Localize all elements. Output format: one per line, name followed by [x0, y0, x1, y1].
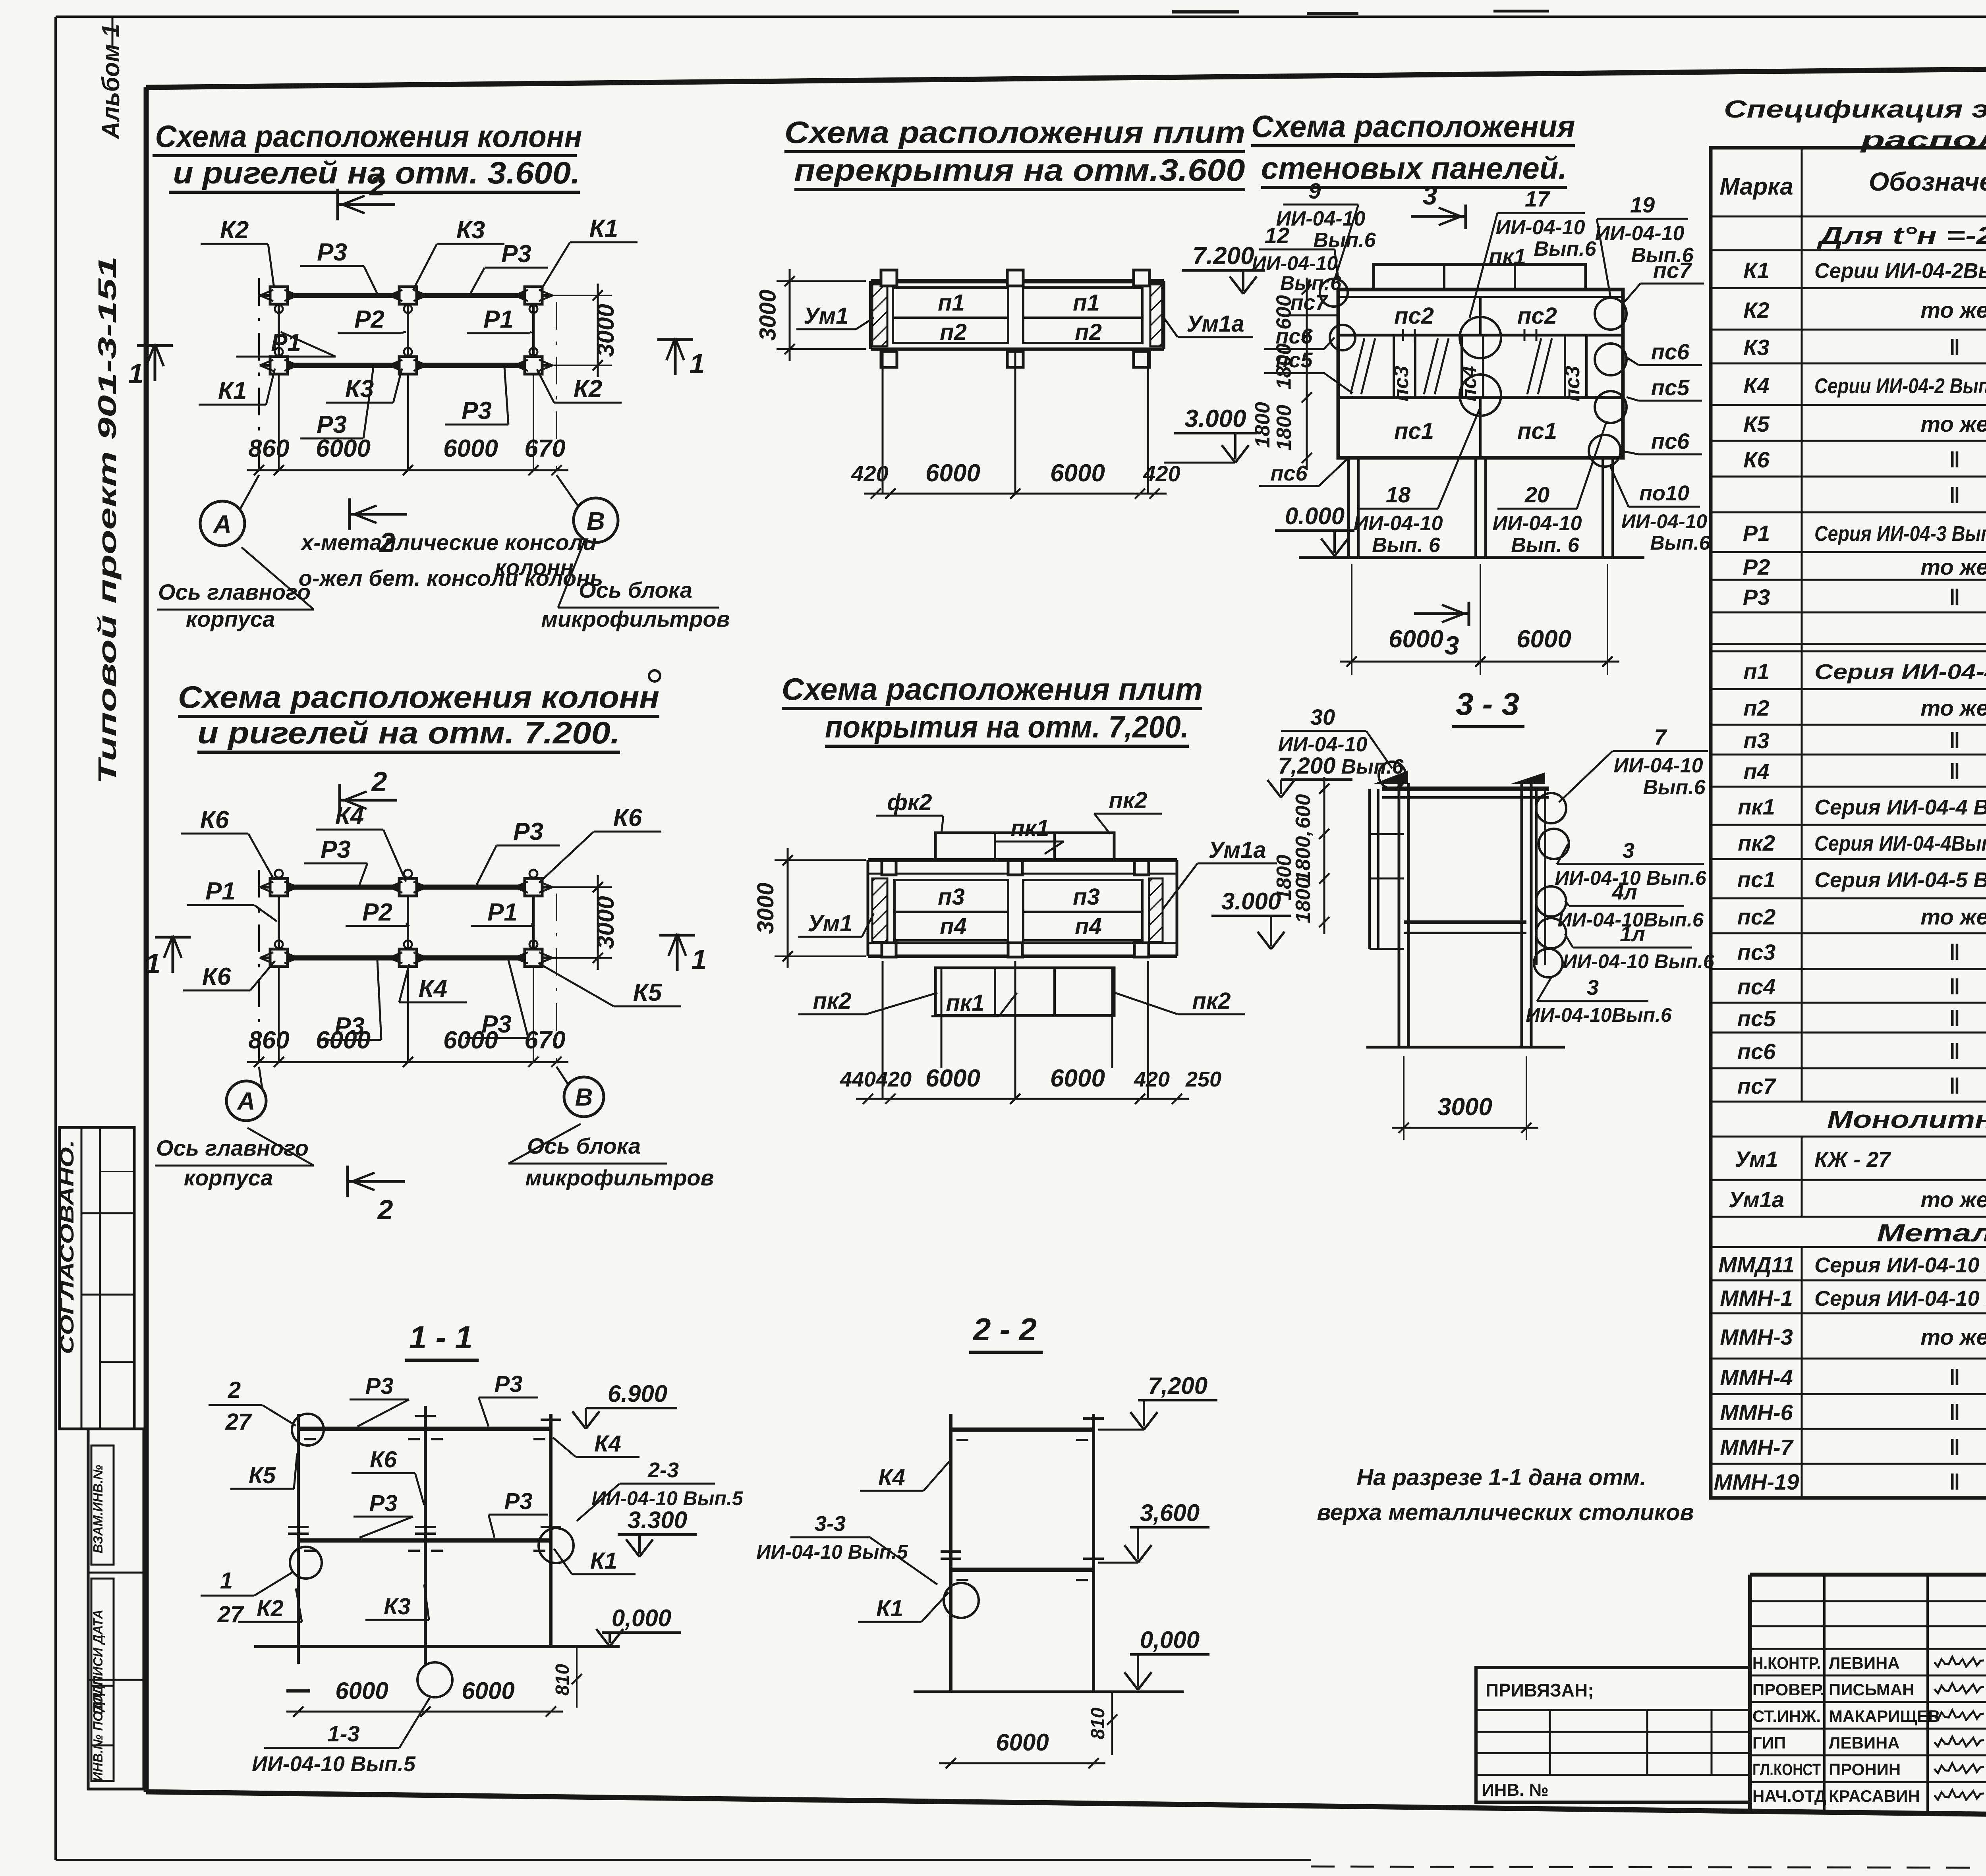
- svg-text:и ригелей на отм. 7.200.: и ригелей на отм. 7.200.: [197, 715, 620, 750]
- svg-text:2-3: 2-3: [647, 1458, 679, 1482]
- svg-text:810: 810: [552, 1664, 573, 1696]
- elevation 0.000 (section 2-2): [1124, 1627, 1209, 1690]
- svg-text:Ось блока: Ось блока: [579, 577, 692, 602]
- svg-text:6000: 6000: [925, 459, 980, 487]
- svg-text:К6: К6: [370, 1447, 397, 1473]
- label Um1a (diagram 4): [1163, 837, 1277, 909]
- svg-text:Р3: Р3: [317, 239, 347, 266]
- label PS6 right (diagram 5): [1627, 339, 1702, 365]
- label K6 bottom (diagram 2): [183, 961, 275, 990]
- vertical dimension 3000 (diagram 1): [541, 284, 619, 377]
- label K6 top right (diagram 2): [539, 804, 661, 882]
- svg-text:3: 3: [1587, 976, 1599, 1000]
- label K4 (diagram 2): [316, 802, 406, 882]
- svg-text:пк2: пк2: [1192, 988, 1231, 1014]
- svg-text:3000: 3000: [1437, 1093, 1492, 1121]
- svg-text:НАЧ.ОТД: НАЧ.ОТД: [1752, 1787, 1826, 1805]
- sidebar agreement box: [57, 1127, 134, 1429]
- label P2 (diagram 1): [338, 306, 406, 333]
- svg-text:Монолитные железобетонные: Монолитные железобетонные элементы.: [1827, 1106, 1986, 1133]
- svg-text:860: 860: [248, 435, 289, 462]
- svg-text:6000: 6000: [925, 1065, 980, 1092]
- svg-text:Р3: Р3: [317, 411, 347, 438]
- mid beam (section 2-2): [951, 1570, 1093, 1580]
- section 3-3 columns: [1399, 783, 1531, 1047]
- label R3 top-right (section 1-1): [479, 1371, 538, 1426]
- svg-text:440: 440: [840, 1067, 876, 1091]
- title: scheme of floor slabs at 3.600: [784, 115, 1245, 189]
- svg-text:27: 27: [225, 1409, 252, 1435]
- svg-text:пс1: пс1: [1394, 418, 1434, 444]
- specification table header: [1719, 157, 1986, 227]
- label K4 bottom (diagram 2): [399, 964, 467, 1002]
- column plates (diagram 3 bottom): [881, 351, 1149, 367]
- corner circles left edge (diagram 5): [1320, 279, 1355, 350]
- section mark 2 (top, diagram 2): [340, 766, 397, 816]
- column K4 (diagram 2 top row): [389, 870, 427, 896]
- svg-text:К2: К2: [1743, 297, 1770, 322]
- column K6 (diagram 2 bottom row): [260, 940, 298, 967]
- label P3 top-left (diagram 1): [300, 239, 377, 294]
- title 2-2: [969, 1312, 1043, 1352]
- svg-text:600: 600: [1292, 794, 1315, 829]
- axis circle B (diagram 1): [556, 475, 618, 542]
- column axes below slab (diagram 3): [883, 351, 1148, 494]
- svg-text:Ось главного: Ось главного: [158, 579, 311, 604]
- svg-text:20: 20: [1524, 482, 1549, 507]
- column feet (section 1-1): [286, 1689, 437, 1693]
- dimension chain 860-6000-6000-670 (diagram 1): [247, 435, 568, 475]
- svg-text:Р3: Р3: [504, 1488, 533, 1514]
- column axes below (diagram 4): [883, 961, 1148, 1099]
- label K5 (diagram 2): [538, 963, 681, 1006]
- svg-text:КЖ - 27: КЖ - 27: [1814, 1148, 1891, 1172]
- svg-text:ММН-3: ММН-3: [1720, 1324, 1793, 1349]
- svg-text:ИНВ.№ ПОДЛ.: ИНВ.№ ПОДЛ.: [91, 1689, 105, 1781]
- svg-text:п1: п1: [1743, 659, 1769, 684]
- svg-text:Вып.6: Вып.6: [1534, 237, 1596, 261]
- axis circle B (diagram 2): [556, 1067, 604, 1117]
- joints on columns (section 1-1): [288, 1416, 561, 1534]
- svg-text:пс7: пс7: [1737, 1073, 1777, 1098]
- svg-text:пк1: пк1: [1010, 815, 1049, 841]
- label P1 right (diagram 2): [471, 899, 534, 926]
- elevation 0.000 (diagram 5): [1275, 503, 1354, 556]
- label P3 top-right (diagram 2): [477, 818, 560, 885]
- monolithic wall section Um1a (diagram 4): [1149, 878, 1163, 942]
- svg-text:х-металлические консоли: х-металлические консоли: [300, 530, 597, 555]
- svg-text:ИИ-04-10: ИИ-04-10: [1492, 512, 1582, 535]
- svg-text:Вып.6: Вып.6: [1650, 532, 1710, 554]
- elevation 0.000 (section 1-1): [596, 1605, 681, 1646]
- svg-text:К5: К5: [633, 979, 663, 1006]
- svg-text:ММН-6: ММН-6: [1720, 1400, 1793, 1425]
- slab outline (diagram 3): [871, 281, 1164, 349]
- svg-text:Альбом 1: Альбом 1: [97, 24, 125, 140]
- svg-text:‖: ‖: [1949, 759, 1960, 784]
- svg-text:К1: К1: [590, 1548, 617, 1574]
- sidebar inventory strip: [88, 1429, 144, 1789]
- svg-text:0.000: 0.000: [1285, 503, 1345, 529]
- svg-text:3: 3: [1423, 181, 1437, 210]
- svg-text:К6: К6: [1743, 447, 1770, 472]
- panel PS1 row (diagram 5): [1394, 398, 1557, 458]
- svg-text:1 - 1: 1 - 1: [409, 1320, 473, 1355]
- column K1 (diagram 1 top row): [514, 287, 553, 313]
- specification climatic row: [1816, 222, 1986, 249]
- title 1-1: [405, 1320, 479, 1360]
- svg-text:Р3: Р3: [369, 1490, 398, 1516]
- label R3 mid-right (section 1-1): [489, 1488, 548, 1538]
- svg-text:7,200: 7,200: [1278, 753, 1335, 779]
- leader 19 II-04-10 Vyp.6 (diagram 5): [1595, 192, 1694, 298]
- section 3-3 right panel stack: [1536, 789, 1545, 965]
- leader 9 II-04-10 Vyp.6 (diagram 5): [1276, 178, 1376, 282]
- column plates (diagram 3 top): [881, 270, 1149, 286]
- svg-text:пс3: пс3: [1390, 366, 1413, 401]
- svg-text:Спецификация элементов к ма: Спецификация элементов к маркировочной с…: [1724, 96, 1986, 123]
- svg-text:‖: ‖: [1949, 728, 1960, 753]
- svg-text:420: 420: [851, 461, 888, 486]
- svg-text:Схема расположения плит: Схема расположения плит: [782, 672, 1203, 706]
- svg-text:то же: то же: [1920, 554, 1986, 579]
- svg-text:п2: п2: [1075, 319, 1102, 345]
- svg-text:6000: 6000: [1050, 459, 1105, 487]
- svg-text:Обозначение: Обозначение: [1869, 167, 1986, 196]
- svg-text:Р3: Р3: [365, 1373, 394, 1399]
- label 2-3 II-04-10 Vyp.5 (section 1-1): [577, 1458, 744, 1521]
- svg-text:К1: К1: [1743, 258, 1770, 283]
- svg-text:6000: 6000: [1050, 1065, 1105, 1092]
- svg-text:3-3: 3-3: [815, 1512, 846, 1536]
- legend metal consoles (diagram 1): [300, 530, 597, 580]
- svg-text:1: 1: [690, 348, 705, 379]
- label P3 bottom-left (diagram 2): [318, 960, 381, 1040]
- svg-text:ИИ-04-10: ИИ-04-10: [1613, 754, 1703, 777]
- wall panel elevation outline (diagram 5): [1338, 290, 1623, 458]
- svg-text:стеновых панелей.: стеновых панелей.: [1261, 151, 1567, 185]
- svg-text:3000: 3000: [592, 896, 619, 949]
- svg-text:фк2: фк2: [887, 789, 932, 815]
- columns of section 1-1: [298, 1406, 551, 1664]
- specification section header metallic: [1877, 1220, 1986, 1247]
- svg-text:микрофильтров: микрофильтров: [541, 606, 730, 631]
- svg-text:2: 2: [377, 1194, 393, 1225]
- leader po10 II-04-10 Vyp.6 (diagram 5): [1609, 465, 1711, 554]
- leader 17 II-04-10 Vyp.6 (diagram 5): [1470, 186, 1597, 318]
- svg-text:420: 420: [1134, 1067, 1170, 1091]
- label K1 (section 2-2): [858, 1592, 949, 1622]
- svg-text:п3: п3: [1073, 884, 1100, 910]
- svg-text:17: 17: [1525, 186, 1551, 211]
- girders R3 top (section 1-1): [298, 1429, 551, 1439]
- label K2 bottom right (diagram 1): [537, 369, 622, 403]
- svg-text:1800: 1800: [1273, 405, 1296, 451]
- svg-text:ГЛ.КОНСТ: ГЛ.КОНСТ: [1752, 1760, 1821, 1779]
- roof plates P3 P4 right bay (diagram 4): [1023, 880, 1142, 940]
- axis lines (diagram 1): [259, 278, 556, 470]
- label P1 left (diagram 2): [187, 878, 277, 921]
- svg-text:6000: 6000: [316, 1027, 371, 1054]
- svg-text:о-жел бет. консоли колонь: о-жел бет. консоли колонь: [299, 566, 603, 591]
- svg-text:ИИ-04-10: ИИ-04-10: [1252, 252, 1338, 274]
- svg-text:то же: то же: [1920, 1324, 1986, 1349]
- column K5 (diagram 2 bottom row): [514, 940, 553, 967]
- vertical dimension 3000 (diagram 3): [755, 269, 866, 361]
- svg-text:К3: К3: [384, 1594, 411, 1619]
- svg-text:2: 2: [369, 170, 385, 201]
- label K1 bottom (diagram 1): [199, 369, 275, 405]
- svg-text:‖: ‖: [1949, 1365, 1960, 1390]
- corner circles right edge (diagram 5): [1589, 298, 1627, 467]
- svg-text:7: 7: [1654, 724, 1667, 749]
- svg-text:Вып.6: Вып.6: [1643, 776, 1706, 799]
- dimension 6000 6000 (diagram 5): [1340, 564, 1619, 675]
- label K3 (section 1-1): [365, 1585, 429, 1620]
- label P1 right (diagram 1): [467, 306, 531, 333]
- svg-text:Серия ИИ-04-4 Вып.17: Серия ИИ-04-4 Вып.17: [1814, 660, 1986, 684]
- svg-text:1: 1: [145, 948, 161, 979]
- left dimension chain 600-1800 (diagram 5): [1251, 278, 1312, 470]
- svg-text:пк2: пк2: [813, 988, 851, 1014]
- svg-text:пс4: пс4: [1458, 366, 1481, 401]
- label PS6 left (diagram 5): [1264, 324, 1335, 349]
- label PS5 left (diagram 5): [1264, 348, 1352, 393]
- svg-text:0,000: 0,000: [612, 1605, 671, 1631]
- label K2 (section 1-1): [238, 1588, 302, 1622]
- svg-text:3000: 3000: [755, 290, 781, 341]
- svg-text:пс1: пс1: [1737, 867, 1776, 892]
- svg-text:п2: п2: [940, 319, 967, 345]
- girders R3 mid (section 1-1): [298, 1540, 551, 1551]
- note axis of main building (diagram 1): [157, 547, 314, 631]
- svg-text:пс3: пс3: [1737, 940, 1776, 965]
- leader 20 II-04-10 Vyp.6 (diagram 5): [1492, 421, 1607, 557]
- label PK2 bottom-left (diagram 4): [798, 988, 937, 1014]
- label 1/27 with circle (section 1-1): [201, 1547, 322, 1627]
- svg-text:К4: К4: [878, 1465, 905, 1490]
- title block signatures: [1752, 1654, 1984, 1805]
- svg-text:Р2: Р2: [354, 306, 384, 333]
- svg-text:Ум1а: Ум1а: [1208, 837, 1266, 863]
- columns below wall (diagram 5): [1348, 458, 1613, 558]
- panel joint ticks (diagram 5): [1403, 329, 1536, 341]
- top beam (section 2-2): [951, 1430, 1093, 1440]
- svg-text:пс5: пс5: [1275, 348, 1313, 372]
- panel PS3 PS4 narrow panels (diagram 5): [1350, 335, 1586, 401]
- svg-text:п1: п1: [1073, 290, 1100, 316]
- svg-text:Серия ИИ-04-5 Вып. 5: Серия ИИ-04-5 Вып. 5: [1814, 868, 1986, 892]
- section 3-3 ground line: [1366, 1046, 1565, 1049]
- svg-text:‖: ‖: [1949, 447, 1960, 472]
- label K5 (section 1-1): [230, 1453, 297, 1489]
- svg-text:6000: 6000: [1517, 625, 1571, 653]
- elevation 6.900 (section 1-1): [572, 1380, 677, 1429]
- left dimension chain (diagram 6): [1273, 777, 1329, 934]
- svg-text:7,200: 7,200: [1148, 1372, 1207, 1399]
- svg-text:п3: п3: [938, 884, 965, 910]
- svg-text:по10: по10: [1639, 481, 1689, 505]
- section mark 2 (bottom, diagram 2): [348, 1166, 405, 1225]
- svg-text:Н.КОНТР.: Н.КОНТР.: [1752, 1654, 1821, 1672]
- svg-text:4л: 4л: [1611, 880, 1637, 904]
- sidebar text Typical project 901-3-151: [93, 256, 122, 784]
- label PS6 lower right (diagram 5): [1621, 428, 1702, 454]
- svg-text:пк2: пк2: [1738, 830, 1775, 855]
- svg-text:Ум1: Ум1: [1735, 1146, 1778, 1172]
- leader 4l II-04-10 Vyp.6 (diagram 6): [1557, 880, 1704, 931]
- specification table body text: [1714, 257, 1986, 1495]
- label P3 top-left (diagram 2): [304, 836, 367, 885]
- cross girders P1 P2 (diagram 2): [279, 887, 533, 958]
- svg-text:ПРИВЯЗАН;: ПРИВЯЗАН;: [1486, 1680, 1594, 1700]
- svg-text:‖: ‖: [1949, 1400, 1960, 1425]
- svg-text:3 - 3: 3 - 3: [1456, 686, 1519, 722]
- svg-text:Схема расположения колонн: Схема расположения колонн: [155, 119, 582, 154]
- svg-text:Р3: Р3: [501, 240, 531, 268]
- title: scheme of columns and girders at 3.600: [153, 119, 582, 192]
- svg-text:пс6: пс6: [1275, 324, 1313, 348]
- elevation 3.300 with circle (section 1-1): [539, 1507, 697, 1563]
- svg-text:Вып. 6: Вып. 6: [1511, 534, 1580, 557]
- label K4 (section 2-2): [860, 1461, 949, 1491]
- svg-text:то же: то же: [1920, 695, 1986, 720]
- svg-text:А: А: [213, 510, 232, 538]
- label P3 top-right (diagram 1): [471, 240, 548, 293]
- elevation 3.000 (diagram 6): [1211, 888, 1291, 949]
- svg-text:‖: ‖: [1949, 974, 1960, 999]
- cornice plates on top (diagram 5): [1374, 264, 1586, 290]
- svg-text:Серия ИИ-04-10 Вып.6: Серия ИИ-04-10 Вып.6: [1814, 1287, 1986, 1310]
- column K3 (diagram 1 bottom row): [389, 348, 427, 374]
- svg-text:‖: ‖: [1949, 1469, 1960, 1494]
- svg-text:ГИП: ГИП: [1752, 1733, 1786, 1752]
- svg-text:30: 30: [1310, 704, 1335, 730]
- svg-text:Р3: Р3: [1743, 585, 1770, 610]
- svg-text:п4: п4: [940, 913, 967, 939]
- svg-text:Ось блока: Ось блока: [527, 1133, 641, 1158]
- svg-text:1: 1: [128, 358, 144, 389]
- label Um1 (diagram 4): [798, 911, 874, 937]
- svg-text:К5: К5: [249, 1463, 276, 1488]
- svg-text:пк2: пк2: [1109, 787, 1147, 813]
- svg-text:Типовой проект 901-3-151: Типовой проект 901-3-151: [93, 256, 122, 784]
- label K6 (diagram 2): [181, 806, 274, 880]
- panel PS2 row with mid joint (diagram 5): [1394, 297, 1557, 335]
- label K1 top (diagram 1): [540, 215, 638, 291]
- svg-text:3000: 3000: [592, 304, 619, 357]
- section mark 1 (right, diagram 1): [657, 338, 705, 379]
- stamp box privyazan: [1476, 1668, 1750, 1802]
- svg-text:420: 420: [875, 1067, 912, 1091]
- elevation 7.200 (section 2-2): [1098, 1372, 1217, 1430]
- svg-text:К2: К2: [220, 216, 249, 244]
- svg-text:К3: К3: [1743, 335, 1770, 360]
- svg-text:18: 18: [1386, 482, 1411, 507]
- svg-text:пс6: пс6: [1651, 339, 1690, 364]
- svg-text:Р3: Р3: [321, 836, 351, 863]
- svg-text:пс6: пс6: [1651, 428, 1690, 454]
- svg-text:ММД11: ММД11: [1718, 1252, 1795, 1277]
- section mark 1 (left, diagram 2): [145, 936, 191, 979]
- specification section header monolithic: [1827, 1106, 1986, 1133]
- title: scheme of wall panels: [1251, 109, 1575, 187]
- section 3-3 legs below mid slab: [1399, 933, 1522, 1047]
- svg-text:ИИ-04-10: ИИ-04-10: [1621, 510, 1708, 533]
- svg-text:микрофильтров: микрофильтров: [525, 1165, 714, 1190]
- girder R3 line bottom row (diagram 2): [279, 955, 533, 961]
- svg-text:ПИСЬМАН: ПИСЬМАН: [1829, 1680, 1915, 1699]
- label PK1 (diagram 5): [1489, 244, 1526, 269]
- vertical dimension 3000 (diagram 2): [541, 875, 619, 970]
- girder R3 line top row (diagram 1): [279, 293, 533, 298]
- svg-text:К4: К4: [1743, 373, 1770, 398]
- svg-text:‖: ‖: [1949, 483, 1960, 508]
- svg-text:Вып.6: Вып.6: [1341, 755, 1404, 778]
- svg-text:Металлические элементы: Металлические элементы: [1877, 1220, 1986, 1247]
- section 3-3 left panel stack: [1370, 789, 1404, 949]
- svg-text:пс4: пс4: [1737, 974, 1776, 999]
- slab plates P1 P2 right bay (diagram 3): [1023, 288, 1142, 345]
- svg-text:Р1: Р1: [487, 899, 518, 926]
- svg-text:пс2: пс2: [1517, 303, 1557, 329]
- svg-text:МАКАРИЩЕВ: МАКАРИЩЕВ: [1829, 1707, 1940, 1725]
- svg-text:6000: 6000: [1389, 625, 1443, 653]
- column K3 (diagram 1 top row): [389, 287, 427, 313]
- svg-text:КРАСАВИН: КРАСАВИН: [1829, 1787, 1920, 1805]
- dimension 3000 (diagram 6): [1392, 1056, 1538, 1140]
- svg-text:пс6: пс6: [1737, 1039, 1776, 1064]
- svg-text:‖: ‖: [1949, 1006, 1960, 1031]
- svg-text:К4: К4: [594, 1431, 621, 1457]
- svg-text:810: 810: [1088, 1708, 1109, 1739]
- svg-text:Р2: Р2: [1743, 554, 1770, 579]
- note about section 1-1: [1317, 1465, 1694, 1525]
- axis circle A (diagram 1): [200, 475, 259, 546]
- column K2 (diagram 1 bottom row): [514, 348, 553, 374]
- column plates (diagram 4): [882, 861, 1149, 957]
- dimension chain 860-6000-6000-670 (diagram 2): [247, 1027, 568, 1067]
- svg-text:К4: К4: [335, 802, 364, 830]
- vertical dimension 3000 (diagram 4): [753, 848, 866, 968]
- svg-text:6000: 6000: [443, 435, 498, 462]
- svg-text:‖: ‖: [1949, 940, 1960, 965]
- svg-text:ИИ-04-10 Вып.5: ИИ-04-10 Вып.5: [591, 1487, 744, 1509]
- svg-text:‖: ‖: [1949, 1039, 1960, 1064]
- svg-text:пс3: пс3: [1561, 366, 1584, 401]
- svg-text:‖: ‖: [1949, 335, 1960, 360]
- svg-text:3: 3: [1623, 839, 1634, 863]
- svg-text:Серия ИИ-04-3 Вып.4часть IиII: Серия ИИ-04-3 Вып.4часть IиII: [1814, 522, 1986, 546]
- svg-text:Вып. 6: Вып. 6: [1372, 534, 1441, 557]
- svg-text:ВЗАМ.ИНВ.№: ВЗАМ.ИНВ.№: [91, 1465, 105, 1553]
- svg-text:верха металлических столиков: верха металлических столиков: [1317, 1500, 1694, 1525]
- cornice plates PK1 top band (diagram 4): [935, 833, 1114, 861]
- svg-text:то же: то же: [1920, 1187, 1986, 1212]
- svg-text:6.900: 6.900: [608, 1380, 667, 1407]
- svg-text:Ум1: Ум1: [808, 911, 853, 936]
- label PK1 top (diagram 4): [996, 815, 1064, 854]
- column K6 (diagram 2 top row): [514, 870, 553, 896]
- svg-text:п4: п4: [1743, 759, 1769, 784]
- svg-text:2 - 2: 2 - 2: [972, 1312, 1037, 1347]
- section 3-3 right circles: [1534, 793, 1569, 977]
- section 3-3 cornice flags: [1372, 762, 1545, 789]
- svg-text:6000: 6000: [443, 1027, 498, 1054]
- slab plates P1 P2 left bay (diagram 3): [893, 288, 1008, 345]
- joint circles mid column (diagram 5): [1460, 317, 1501, 416]
- svg-text:1: 1: [220, 1568, 233, 1594]
